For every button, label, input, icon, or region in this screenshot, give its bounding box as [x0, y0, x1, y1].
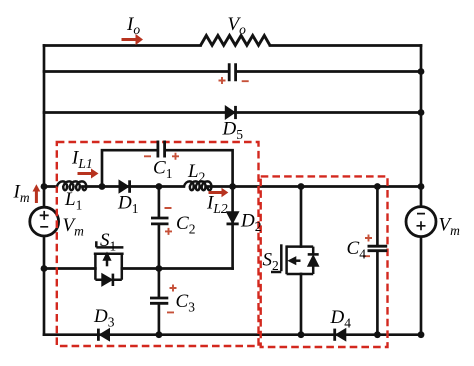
capacitor C2: [151, 218, 169, 224]
svg-text:Vo: Vo: [228, 14, 247, 37]
node C2-C3 junction: [156, 265, 163, 272]
svg-text:Vm: Vm: [439, 215, 461, 239]
svg-text:IL2: IL2: [206, 193, 228, 217]
wire output-capacitor rail: [44, 70, 421, 73]
box red dashed (quadratic boost cell): [57, 142, 259, 346]
svg-text:D4: D4: [330, 307, 352, 331]
arrow Im: [33, 184, 41, 203]
node C4 top: [374, 183, 381, 190]
wire C2-C3 column: [158, 187, 161, 335]
wire S2 column: [300, 187, 303, 335]
capacitor C3: [150, 298, 168, 303]
wire D5 rail: [44, 111, 421, 114]
svg-text:D1: D1: [117, 193, 138, 217]
wire main rail: [44, 185, 421, 188]
svg-text:C3: C3: [176, 291, 196, 315]
svg-text:D5: D5: [222, 119, 244, 143]
svg-text:L2: L2: [187, 161, 205, 185]
node L2-D2 junction: [229, 183, 236, 190]
inductor L1: [57, 181, 86, 190]
svg-text:Io: Io: [126, 14, 140, 37]
svg-text:IL1: IL1: [71, 148, 93, 172]
diode D5: [225, 106, 235, 119]
diode D4: [335, 329, 346, 341]
svg-text:C4: C4: [347, 238, 367, 262]
arrow Io: [122, 34, 144, 45]
node C1-C2 junction: [156, 183, 163, 190]
polarity marks output cap: [219, 77, 249, 84]
transistor S2 (MOSFET with body diode): [271, 244, 313, 274]
svg-text:S1: S1: [100, 230, 116, 254]
capacitor output (top): [229, 63, 235, 81]
svg-text:S2: S2: [263, 250, 279, 274]
arrow IL2: [209, 188, 229, 197]
diode D2: [227, 212, 239, 224]
node S2 bottom: [298, 331, 305, 338]
box red dashed (switched-capacitor cell): [261, 176, 388, 347]
polarity marks C3: [167, 285, 177, 313]
svg-text:D3: D3: [93, 306, 115, 330]
svg-text:C2: C2: [176, 213, 195, 237]
node right D5 rail: [418, 109, 425, 116]
node right bottom: [418, 331, 425, 338]
wire right rail: [420, 46, 423, 335]
arrow IL1: [78, 169, 99, 179]
inductor L2: [184, 181, 212, 190]
node C4 bottom: [374, 331, 381, 338]
capacitor C1: [158, 141, 165, 158]
node left S1 rail: [41, 265, 48, 272]
node right main: [418, 183, 425, 190]
node S2 top: [298, 183, 305, 190]
transistor S1 (MOSFET with body diode): [94, 241, 124, 279]
node left main: [41, 183, 48, 190]
wire top rail: [44, 44, 421, 47]
wire C1 branch: [102, 150, 233, 186]
node C3 bottom: [156, 331, 163, 338]
polarity marks C1: [144, 153, 179, 160]
source Vm right: [406, 207, 436, 237]
diode D3: [98, 329, 109, 341]
wire S1 rail: [44, 267, 233, 270]
polarity marks C2: [165, 208, 173, 235]
node right cap rail: [418, 68, 425, 75]
source Vm left: [30, 207, 59, 236]
wire left rail: [43, 46, 46, 335]
resistor Vo: [201, 36, 271, 46]
node L1-D1: [99, 183, 106, 190]
wire C4 column: [376, 187, 379, 335]
wire bottom rail: [44, 333, 421, 336]
svg-text:C1: C1: [153, 158, 172, 182]
svg-text:Im: Im: [13, 182, 30, 206]
capacitor C4: [368, 246, 388, 251]
svg-text:L1: L1: [64, 189, 82, 213]
polarity marks C4: [363, 235, 372, 257]
svg-text:Vm: Vm: [63, 215, 85, 239]
diode D1: [119, 180, 130, 193]
wire D2 column: [231, 187, 234, 269]
